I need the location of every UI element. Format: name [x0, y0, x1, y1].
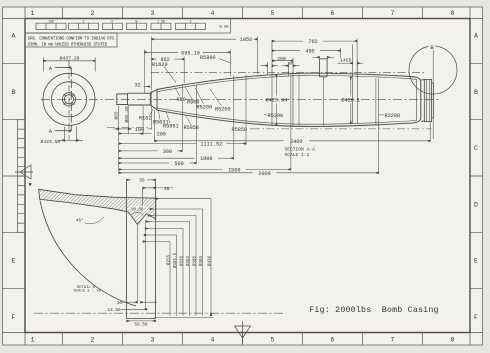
section labels A [49, 65, 53, 135]
top strip bottom line [3, 18, 483, 20]
left column dividers [3, 63, 26, 288]
vertical dim texts dia65.48 [123, 106, 130, 123]
nose cylinder [128, 89, 157, 110]
nose radius label R900 [185, 87, 192, 100]
svg-text:14.58: 14.58 [108, 308, 122, 313]
right column left line [469, 7, 471, 345]
svg-text:A: A [12, 33, 16, 40]
svg-text:D: D [474, 202, 478, 209]
dim 429.50 [58, 127, 83, 143]
bomb body inner wall [157, 75, 417, 124]
svg-text:1455: 1455 [340, 58, 352, 64]
svg-text:8: 8 [451, 337, 455, 344]
svg-text:Ø255: Ø255 [166, 254, 171, 265]
dim 437.29 [43, 58, 95, 72]
svg-text:8: 8 [451, 10, 455, 17]
dim 1000 [119, 75, 234, 158]
svg-text:W 5B: W 5B [220, 26, 229, 30]
svg-text:R5890: R5890 [200, 55, 216, 61]
dim 56 [127, 179, 156, 181]
dim 1111.52 [119, 75, 246, 144]
dim 14.58 [121, 220, 147, 310]
label R5851 [166, 112, 170, 123]
svg-text:Ø301.5: Ø301.5 [173, 252, 178, 268]
svg-text:F: F [12, 314, 16, 321]
drawing caption [309, 305, 438, 315]
svg-text:1500: 1500 [228, 167, 240, 173]
svg-text:B: B [12, 89, 16, 96]
dim 1056 [152, 37, 258, 91]
station line x375.9 [375, 78, 377, 124]
dim 2400 [155, 122, 431, 141]
label R5850 [185, 115, 191, 125]
suspension lug ticks [268, 41, 358, 126]
left column right line [24, 7, 26, 345]
nose fuze cap [117, 94, 128, 105]
dim 300 [119, 84, 183, 151]
svg-text:Ø425.94: Ø425.94 [266, 96, 288, 103]
svg-text:Ø65.48: Ø65.48 [123, 106, 130, 123]
svg-text:E: E [474, 258, 478, 265]
svg-text:7: 7 [391, 10, 395, 17]
svg-text:Ø429.50: Ø429.50 [41, 138, 61, 145]
dim 100 [114, 128, 152, 130]
svg-text:3: 3 [151, 10, 155, 17]
svg-text:1: 1 [31, 337, 35, 344]
svg-text:90.08°: 90.08° [131, 207, 146, 212]
nose radius label R5200 a [195, 88, 204, 105]
svg-text:Ø437.29: Ø437.29 [60, 54, 80, 61]
label R1620 upper [164, 67, 176, 83]
svg-text:2400: 2400 [290, 139, 302, 145]
svg-text:480: 480 [305, 49, 314, 55]
svg-text:E: E [12, 258, 16, 265]
svg-text:1 SB: 1 SB [157, 19, 165, 23]
label R162 lower [150, 109, 154, 116]
front view vertical centreline [68, 60, 70, 141]
svg-text:R5200: R5200 [268, 113, 284, 119]
svg-text:B: B [474, 89, 478, 96]
nose radius label R5200 b [210, 89, 222, 106]
svg-text:1000: 1000 [200, 156, 212, 162]
dim 32 [144, 86, 151, 88]
nose extension lines [119, 91, 155, 173]
front view inner circle [51, 82, 86, 117]
svg-text:Ø428.1: Ø428.1 [341, 96, 360, 103]
detail cut mark [29, 183, 32, 187]
lug width arrows [261, 65, 300, 67]
bottom strip numbers 1-8 [31, 337, 455, 344]
bottom strip top line [3, 332, 483, 334]
detail hatched casing wall [39, 189, 156, 224]
top strip ticks [63, 7, 423, 19]
svg-text:F: F [112, 19, 114, 23]
svg-text:R5200: R5200 [197, 105, 213, 111]
label R5031 [159, 111, 161, 120]
svg-text:A: A [474, 33, 478, 40]
main axis centreline [41, 98, 440, 100]
svg-text:2: 2 [83, 19, 85, 23]
svg-text:R50: R50 [177, 97, 186, 103]
svg-text:45°: 45° [76, 219, 84, 224]
svg-text:695.10: 695.10 [181, 50, 200, 56]
cascade dia dim lines [143, 199, 213, 318]
dim 200 [119, 133, 152, 135]
detail ogive arc [40, 201, 136, 307]
detail axis centreline [34, 312, 285, 314]
front view outer circle [43, 73, 95, 125]
left column letters [12, 33, 16, 322]
filling plug boss [320, 59, 328, 126]
svg-text:Ø436: Ø436 [207, 255, 212, 266]
nose radius label R50 [175, 88, 180, 97]
svg-text:56: 56 [139, 179, 145, 184]
svg-text:5: 5 [271, 337, 275, 344]
svg-text:100: 100 [135, 127, 144, 133]
dim 500 [119, 86, 197, 164]
revision small boxes [36, 23, 206, 29]
svg-text:SCALE 1:2: SCALE 1:2 [285, 152, 310, 158]
station line x299 [298, 75, 300, 126]
fuze well column [127, 182, 156, 319]
svg-text:6: 6 [331, 10, 335, 17]
revision box row container [25, 19, 231, 34]
svg-text:10: 10 [117, 301, 123, 306]
left edge centring triangle [15, 165, 33, 179]
svg-text:1: 1 [31, 10, 35, 17]
right column letters [474, 33, 478, 322]
svg-text:80: 80 [289, 63, 293, 67]
svg-text:3: 3 [190, 19, 192, 23]
svg-text:F: F [474, 314, 478, 321]
plug width arrows [313, 56, 335, 58]
svg-text:188: 188 [48, 19, 54, 23]
svg-text:R1620: R1620 [152, 62, 168, 68]
label R3200 [379, 114, 384, 116]
svg-text:SECTION A-A: SECTION A-A [285, 146, 316, 152]
lower envelope centreline [107, 128, 432, 129]
angle label 45 [85, 217, 104, 224]
vertical dim texts dia65 [113, 111, 120, 119]
svg-text:58.58: 58.58 [134, 322, 148, 327]
svg-text:200: 200 [277, 56, 286, 62]
svg-text:DIMN. IN mm UNLESS OTHERWISE S: DIMN. IN mm UNLESS OTHERWISE STATED [28, 44, 108, 48]
svg-text:200: 200 [157, 132, 166, 138]
svg-text:4: 4 [211, 10, 215, 17]
svg-text:Fig: 2000lbs Bomb Casing: Fig: 2000lbs Bomb Casing [309, 305, 438, 315]
svg-text:2: 2 [91, 337, 95, 344]
label R5890 [219, 59, 230, 64]
angle label 90.08 [132, 212, 144, 215]
dim 58.58 [127, 320, 156, 322]
label R5200 mid [264, 114, 267, 116]
svg-text:R162: R162 [139, 115, 151, 121]
detail circle B [409, 46, 457, 94]
top strip numbers 1-8 [31, 10, 455, 17]
note text [28, 38, 116, 48]
svg-text:3: 3 [151, 337, 155, 344]
upper envelope centreline [151, 72, 426, 74]
svg-text:762: 762 [308, 39, 317, 45]
detail title [74, 286, 102, 294]
detail reference line [432, 50, 434, 139]
vertical dia dim 425.94 [275, 74, 277, 125]
dim 882 [152, 57, 185, 84]
dim 200 top [272, 60, 293, 62]
svg-text:1111.52: 1111.52 [200, 142, 222, 148]
svg-text:R5851: R5851 [163, 123, 179, 129]
svg-text:2: 2 [91, 10, 95, 17]
svg-text:26: 26 [164, 187, 170, 192]
svg-text:C: C [474, 145, 478, 152]
dim 480 [272, 48, 341, 58]
svg-text:SCALE 1 : 10: SCALE 1 : 10 [74, 290, 102, 294]
right column dividers [470, 63, 483, 288]
dim 1500 [119, 74, 291, 170]
svg-text:DRG. CONVENTIONS CONFIRM TO IN: DRG. CONVENTIONS CONFIRM TO INDIAN STD. [28, 38, 116, 42]
bomb body outer profile [157, 73, 421, 126]
dim 80 [289, 63, 293, 67]
bottom edge centring triangle [235, 321, 251, 344]
svg-text:1056: 1056 [240, 37, 252, 43]
svg-text:6: 6 [331, 337, 335, 344]
svg-text:W: W [136, 19, 138, 23]
svg-text:7: 7 [391, 337, 395, 344]
front view hub circles [62, 93, 75, 106]
svg-text:2000: 2000 [258, 171, 270, 177]
svg-text:5: 5 [271, 10, 275, 17]
dim 26 [143, 187, 173, 189]
dim 1455 [338, 62, 364, 64]
cascade labels [166, 252, 212, 268]
revision box tiny labels [48, 19, 191, 23]
dim 10 [122, 225, 157, 302]
bottom strip ticks [63, 333, 423, 346]
svg-text:R5200: R5200 [215, 107, 231, 113]
svg-text:Ø303: Ø303 [199, 255, 204, 266]
drawing note box [25, 33, 117, 47]
label R5850 right [250, 128, 253, 130]
svg-text:4: 4 [211, 337, 215, 344]
section title [285, 146, 316, 158]
hub spoke ticks [64, 94, 75, 105]
dim 695.10 [145, 50, 231, 93]
svg-text:Ø335: Ø335 [179, 255, 184, 266]
section line A-A [55, 68, 71, 131]
dim 762 [272, 39, 357, 78]
detail circle label B [429, 43, 436, 51]
svg-text:R3200: R3200 [385, 113, 401, 119]
svg-text:500: 500 [174, 161, 183, 167]
left ladder scale strip [18, 120, 26, 233]
svg-text:R5850: R5850 [184, 125, 200, 131]
svg-text:Ø363: Ø363 [186, 255, 191, 266]
scale mark text [220, 26, 229, 30]
tail base plate [421, 79, 433, 121]
svg-text:Ø385: Ø385 [192, 255, 197, 266]
vertical dia dim 428.1 [350, 77, 352, 124]
dim 2000 [119, 79, 379, 174]
svg-text:32: 32 [135, 82, 141, 88]
svg-text:300: 300 [163, 149, 172, 155]
